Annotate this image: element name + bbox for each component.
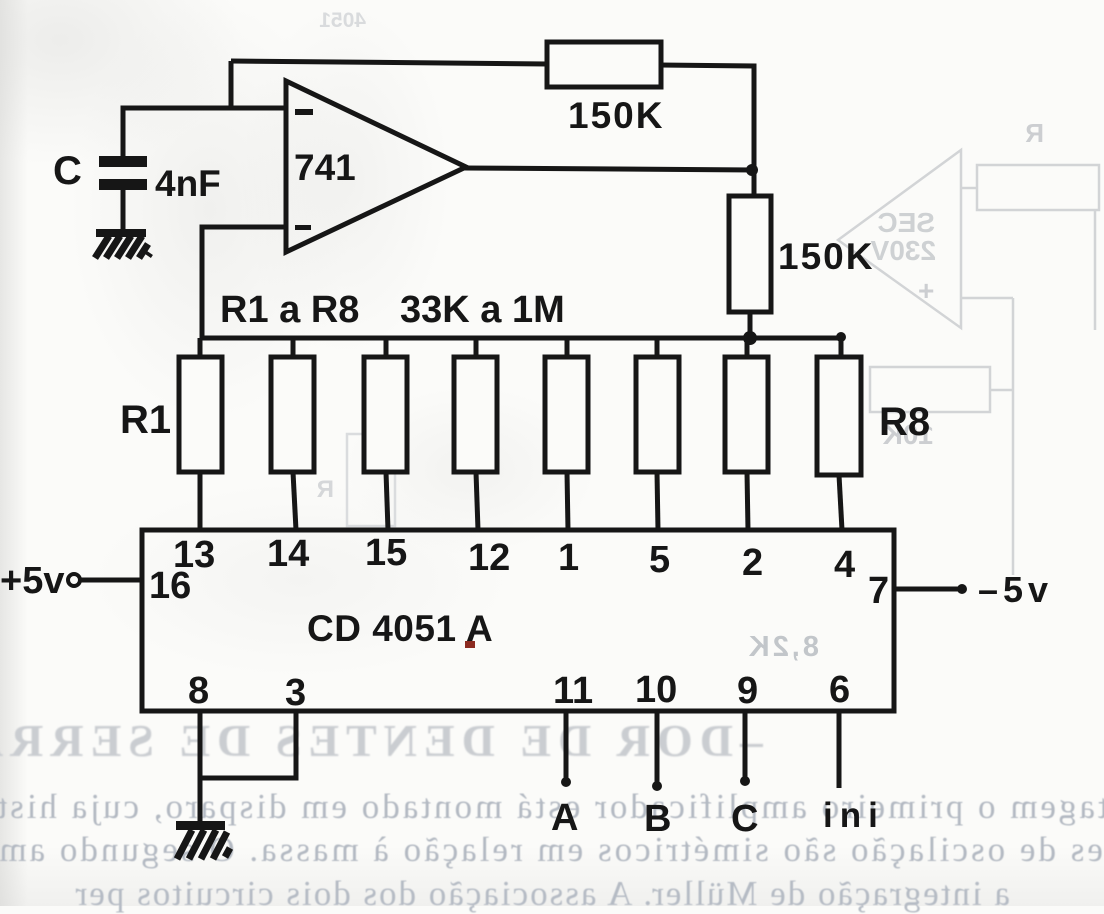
resistor R1 <box>179 357 222 472</box>
wire stub R1 top <box>198 338 203 358</box>
wire R4 to pin 12 <box>476 472 478 530</box>
svg-text:4: 4 <box>834 544 855 586</box>
wire pin 10 <box>655 711 660 784</box>
ghost text line 2 <box>0 787 1104 827</box>
svg-text:+5v: +5v <box>0 560 64 602</box>
resistor R3 <box>364 357 407 472</box>
wire pin 3 down and left <box>200 711 296 778</box>
wire R8 to pin 4 <box>839 475 842 530</box>
wire stub R7 top <box>745 338 750 358</box>
ground symbol G2 <box>176 821 230 859</box>
ghost box centre-left <box>347 434 395 526</box>
resistor R5 <box>545 357 588 472</box>
svg-text:R1 a R8: R1 a R8 <box>220 289 359 331</box>
wire +5v to pin 16 <box>80 578 142 583</box>
wire V-resistor bottom to bus <box>748 310 753 338</box>
ground symbol G1 <box>95 229 150 258</box>
op-amp U1 inverting mark <box>295 109 313 115</box>
ghost wire from box right <box>1094 210 1097 330</box>
svg-text:C: C <box>53 149 82 193</box>
node pin 10 end <box>652 781 662 791</box>
svg-text:ini: ini <box>823 796 885 835</box>
ghost vertical net <box>1012 298 1015 575</box>
wire pin 9 <box>743 711 748 779</box>
wire R2 to pin 14 <box>293 472 296 530</box>
ghost wire to box <box>961 187 977 190</box>
svg-text:A: A <box>551 797 578 839</box>
op-amp U1 lower input mark <box>295 225 311 230</box>
svg-text:14: 14 <box>267 533 309 575</box>
ghost heading line <box>0 714 763 767</box>
svg-text:7: 7 <box>868 570 889 612</box>
svg-text:230V: 230V <box>870 235 936 266</box>
resistor R10 150K vertical <box>729 196 771 312</box>
wire R3 to pin 15 <box>386 472 388 530</box>
svg-text:2: 2 <box>742 542 763 584</box>
ghost wire box to net <box>990 389 1013 392</box>
svg-text:R1: R1 <box>120 398 171 442</box>
svg-text:10: 10 <box>635 669 677 711</box>
wire non-inverting input <box>202 227 286 338</box>
ghost horizontal stub <box>961 297 1013 300</box>
wire feedback top <box>231 61 547 64</box>
IC U2 CD4051A body <box>142 530 894 711</box>
wire pin 7 to -5v <box>894 587 962 592</box>
ghost resistor box mid-right <box>870 367 990 412</box>
svg-text:4nF: 4nF <box>155 163 221 204</box>
svg-text:R: R <box>317 476 334 503</box>
wire stub R4 top <box>474 338 479 358</box>
wire stub R3 top <box>384 338 389 358</box>
terminal dot -5v <box>957 584 967 594</box>
svg-text:1: 1 <box>558 537 579 579</box>
svg-text:15: 15 <box>365 532 407 574</box>
wire resistor bus <box>201 336 841 341</box>
svg-text:11: 11 <box>553 670 593 712</box>
node pin 11 end <box>561 777 571 787</box>
svg-text:SEC: SEC <box>877 207 935 238</box>
wire stub R8 top <box>839 338 844 358</box>
svg-text:12: 12 <box>468 537 510 579</box>
wire pin 6 <box>837 711 842 788</box>
resistor R8 <box>817 357 861 475</box>
svg-text:3: 3 <box>285 672 306 714</box>
resistor bank stubs top <box>200 338 841 358</box>
resistor R7 <box>725 357 768 472</box>
node output junction <box>746 164 758 176</box>
node bus junction <box>743 331 757 345</box>
svg-text:R8: R8 <box>879 400 930 444</box>
wire R7 to pin 2 <box>747 472 748 530</box>
wire stub R2 top <box>291 338 296 358</box>
svg-text:5: 5 <box>649 539 670 581</box>
svg-text:C: C <box>731 798 758 840</box>
capacitor C1 top plate <box>99 156 147 167</box>
wire stub R5 top <box>565 338 570 358</box>
resistor R4 <box>454 357 497 472</box>
capacitor C1 bottom plate <box>99 179 147 190</box>
ghost resistor box top-right <box>977 165 1099 210</box>
op-amp U1 741 <box>286 81 466 252</box>
wire R6 to pin 5 <box>657 472 658 530</box>
svg-text:–5v: –5v <box>978 569 1053 610</box>
svg-text:150K: 150K <box>778 236 874 277</box>
ghost text line 4 <box>0 874 1010 914</box>
ghost text line 3 <box>0 830 1104 870</box>
svg-text:4051: 4051 <box>319 9 366 32</box>
resistor R6 <box>636 357 679 472</box>
resistor R9 150K horizontal (feedback) <box>547 42 661 87</box>
wire feedback riser <box>229 61 234 108</box>
terminal circle +5v <box>68 574 80 586</box>
wire pin 11 <box>564 711 569 780</box>
wire cap top to inverting input <box>123 108 286 156</box>
svg-text:6: 6 <box>829 669 850 711</box>
svg-text:9: 9 <box>737 670 758 712</box>
node pin 9 end <box>740 776 750 786</box>
svg-text:741: 741 <box>294 147 356 188</box>
node bus right end <box>836 332 846 342</box>
wire pin 8 to ground <box>198 711 203 823</box>
wire R1 to pin 13 <box>198 472 203 530</box>
resistor R2 <box>271 357 314 472</box>
ghost op-amp triangle <box>838 150 961 328</box>
svg-text:33K a 1M: 33K a 1M <box>400 289 565 331</box>
svg-text:B: B <box>644 798 671 840</box>
svg-text:150K: 150K <box>568 95 664 136</box>
svg-text:+: + <box>918 275 934 306</box>
wire cap bottom to ground <box>121 190 126 231</box>
svg-text:8,2K: 8,2K <box>746 631 819 663</box>
resistor bank stubs bottom to IC <box>200 472 842 530</box>
wire op-amp output <box>464 168 754 170</box>
wire R5 to pin 1 <box>567 472 568 530</box>
wire stub R6 top <box>655 338 660 358</box>
red mark under A <box>465 641 475 648</box>
svg-text:8: 8 <box>188 670 209 712</box>
svg-text:16: 16 <box>149 565 191 607</box>
wire resistor R9 right to output node <box>659 65 754 196</box>
svg-text:R: R <box>1025 118 1044 148</box>
